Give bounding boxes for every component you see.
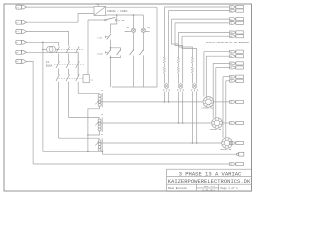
svg-text:N: N — [16, 42, 17, 44]
svg-text:B16A: B16A — [46, 65, 53, 68]
svg-text:START: START — [97, 53, 104, 56]
svg-text:Mads Barnkob: Mads Barnkob — [168, 186, 187, 190]
svg-text:V3: V3 — [230, 81, 232, 83]
svg-text:L3: L3 — [230, 32, 232, 34]
svg-text:PE: PE — [16, 52, 18, 54]
svg-text:GREEN: GREEN — [125, 30, 132, 33]
svg-text:F1: F1 — [46, 61, 50, 64]
svg-text:Rev. 1.0: Rev. 1.0 — [204, 185, 215, 188]
svg-text:PE: PE — [16, 61, 18, 63]
svg-text:T1: T1 — [96, 4, 100, 7]
svg-text:O1: O1 — [230, 102, 232, 104]
svg-text:U3: U3 — [230, 76, 232, 78]
svg-text:O3: O3 — [230, 143, 232, 145]
svg-text:S1 ON: S1 ON — [118, 19, 125, 22]
svg-text:U2: U2 — [230, 63, 232, 65]
svg-text:L1: L1 — [230, 7, 232, 9]
svg-text:RED: RED — [146, 30, 151, 33]
svg-text:U1: U1 — [230, 51, 232, 53]
svg-text:V2: V2 — [230, 67, 232, 69]
svg-text:O2: O2 — [230, 123, 232, 125]
svg-text:230VAC 6A: 230VAC 6A — [201, 107, 214, 110]
svg-text:Page 1 of 1: Page 1 of 1 — [221, 186, 239, 190]
svg-text:230VAC 6A: 230VAC 6A — [210, 128, 223, 131]
svg-text:N1: N1 — [230, 10, 232, 12]
svg-text:230VAC 6A: 230VAC 6A — [220, 148, 233, 151]
svg-text:STOP: STOP — [97, 36, 103, 39]
svg-text:N2: N2 — [230, 23, 232, 25]
svg-text:OUTPUTS PROTECTED BY 13A BREAK: OUTPUTS PROTECTED BY 13A BREAKERS — [206, 41, 250, 44]
svg-text:V1: V1 — [230, 56, 232, 58]
svg-text:230VAC / 12VDC: 230VAC / 12VDC — [107, 10, 128, 13]
svg-text:N3: N3 — [230, 36, 232, 38]
svg-text:L1: L1 — [16, 7, 18, 9]
svg-text:GN: GN — [230, 164, 232, 166]
svg-text:L3: L3 — [16, 31, 18, 33]
svg-text:L2: L2 — [16, 22, 18, 24]
svg-text:21-08-2011: 21-08-2011 — [202, 189, 216, 192]
svg-text:3 PHASE 13 A VARIAC: 3 PHASE 13 A VARIAC — [179, 170, 242, 177]
svg-text:L2: L2 — [230, 19, 232, 21]
